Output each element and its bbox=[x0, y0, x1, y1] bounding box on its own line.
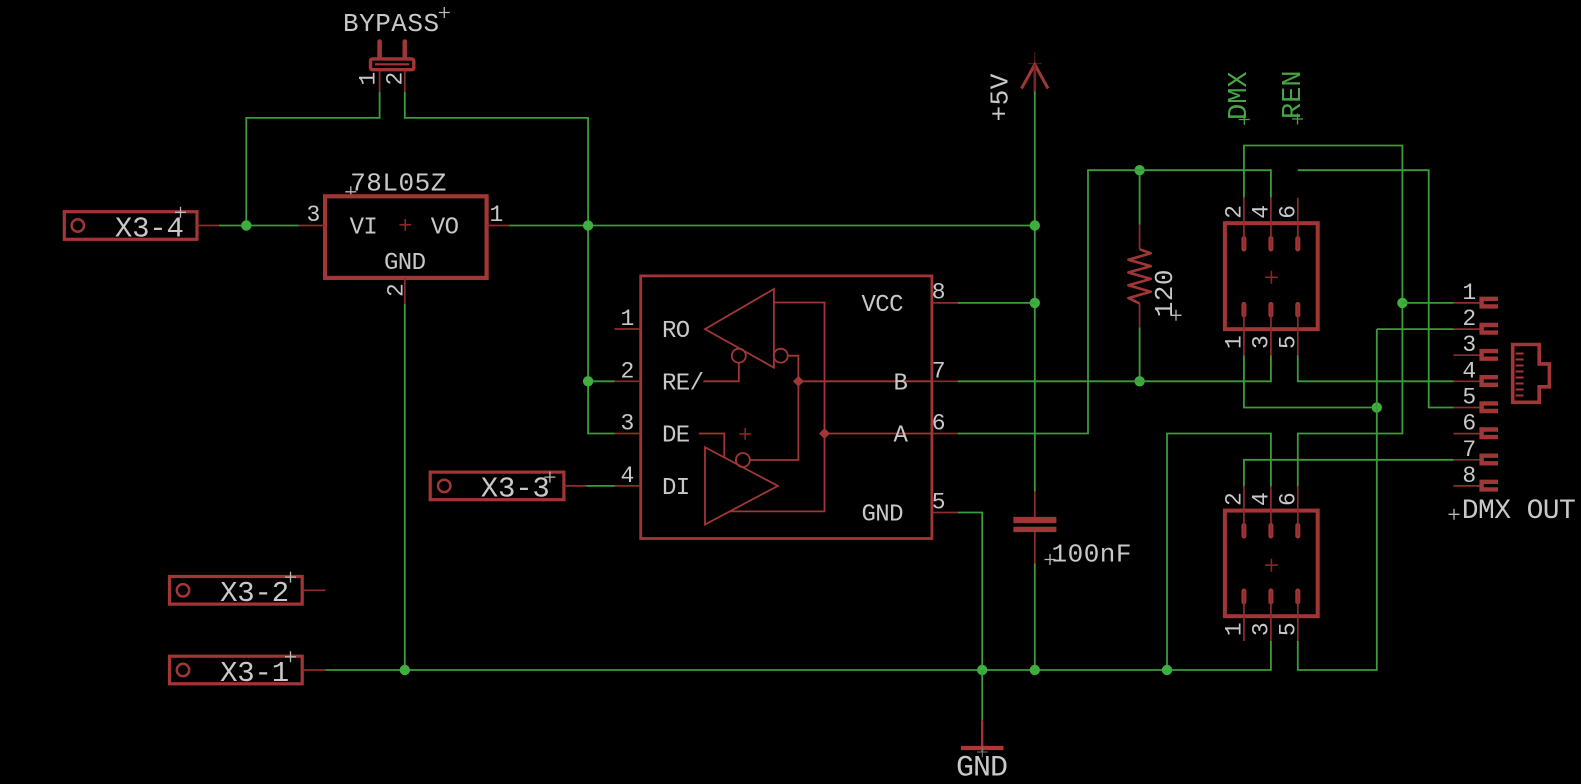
svg-text:3: 3 bbox=[1248, 336, 1274, 349]
svg-text:VI: VI bbox=[350, 215, 378, 242]
78L05 internal origin cross (red) bbox=[400, 219, 412, 231]
78L05 pin 2 stub bbox=[404, 278, 406, 304]
svg-text:5: 5 bbox=[1462, 385, 1475, 411]
DMX OUT pin 8 lead bbox=[1454, 485, 1480, 487]
net label REN (green) bbox=[1279, 70, 1309, 124]
net label DMX (green) bbox=[1225, 71, 1255, 125]
junction resistor bottom at B-line bbox=[1134, 376, 1144, 386]
svg-text:RO: RO bbox=[662, 318, 690, 345]
junction +5V / VO bbox=[1030, 220, 1040, 230]
REN header outer stubs bottom bbox=[1244, 591, 1298, 641]
REN header inner pin marks top bbox=[1244, 526, 1298, 537]
capacitor BYPASS body bbox=[371, 59, 414, 70]
connector X3-4 bbox=[64, 207, 219, 246]
DMX OUT pin 8 hook bbox=[1482, 482, 1498, 490]
IC internal origin cross (red) bbox=[739, 428, 751, 440]
wire DMX header pin1 down to node bbox=[1244, 356, 1377, 408]
svg-text:78L05Z: 78L05Z bbox=[350, 168, 447, 198]
junction GND net at DMX OUT pin1 bbox=[1397, 298, 1407, 308]
wire bypass pin2 to bus to VO/RE/DE vertical bbox=[405, 92, 615, 434]
receiver output line to A-node bbox=[730, 303, 825, 512]
wire REN pin2 to DMX OUT pin7 bbox=[1244, 460, 1454, 487]
receiver output bubble bbox=[732, 349, 746, 363]
DMX OUT pin 3 hook bbox=[1482, 351, 1498, 359]
svg-text:120: 120 bbox=[1150, 269, 1180, 317]
svg-text:+5V: +5V bbox=[986, 73, 1016, 121]
+5V pin cross (thin) bbox=[1028, 52, 1042, 75]
svg-text:DI: DI bbox=[662, 475, 690, 502]
DMX OUT pin 7 hook bbox=[1482, 456, 1498, 464]
svg-text:VO: VO bbox=[431, 215, 459, 242]
wire REN net: DMX header pin6 over and down to DMX OUT pin5 bbox=[1298, 170, 1454, 407]
junction diamond B-node bbox=[793, 376, 804, 387]
junction node at 1377/407 bbox=[1372, 402, 1382, 412]
REN header box bbox=[1225, 511, 1318, 617]
100nF top lead bbox=[1034, 492, 1036, 518]
78L05 pin 3 stub bbox=[299, 225, 326, 227]
svg-text:GND: GND bbox=[384, 250, 426, 277]
wire ground bus (X3-1 to REN pin3) bbox=[325, 641, 1271, 670]
DMX OUT pin 6 lead bbox=[1454, 433, 1480, 435]
X3-3 origin cross bbox=[544, 472, 555, 483]
driver enable bubble bbox=[736, 453, 750, 467]
junction 100nF at bus bbox=[1030, 665, 1040, 675]
DMX OUT pin 4 hook bbox=[1482, 377, 1498, 385]
pin header SV1 (DMX jumper block) bbox=[1221, 198, 1317, 356]
svg-text:7: 7 bbox=[1462, 437, 1475, 463]
junction diamond A-node bbox=[819, 428, 830, 439]
wire B-out: DMX header pin5 to DMX OUT pin4 bbox=[1298, 356, 1454, 382]
100nF bottom plate bbox=[1013, 527, 1056, 532]
svg-text:1: 1 bbox=[1221, 336, 1247, 349]
receiver triangle bbox=[705, 289, 774, 368]
DMX OUT pin 1 lead bbox=[1454, 302, 1480, 304]
X3-3 box bbox=[430, 472, 564, 500]
svg-text:1: 1 bbox=[1462, 280, 1475, 306]
X3-3 pin stub bbox=[564, 485, 586, 487]
wire node down to REN pin5 bbox=[1298, 329, 1377, 670]
transceiver IC 75176 bbox=[615, 276, 958, 539]
pin stub RE/ bbox=[615, 380, 641, 382]
junction X3-4/VI node bbox=[241, 220, 251, 230]
X3-2 pad circle bbox=[177, 584, 189, 596]
RE/ internal line bbox=[704, 363, 739, 382]
supply symbol +5V bbox=[986, 52, 1049, 122]
X3-1 pin stub bbox=[302, 669, 326, 671]
svg-text:6: 6 bbox=[1462, 411, 1475, 437]
wire VCC pin8 to +5V rail bbox=[958, 302, 1035, 304]
svg-text:4: 4 bbox=[1248, 205, 1274, 218]
connector X3-2 bbox=[170, 572, 326, 611]
wire resistor bottom to B-line bbox=[1139, 328, 1141, 382]
svg-text:X3-3: X3-3 bbox=[481, 473, 550, 506]
wire B net: IC pin7 to DMX header pin3 bbox=[958, 356, 1271, 382]
svg-text:4: 4 bbox=[1248, 493, 1274, 506]
svg-text:8: 8 bbox=[932, 280, 945, 306]
DMX OUT pin 1 hook bbox=[1482, 299, 1498, 307]
GND label origin cross bbox=[977, 747, 988, 758]
svg-text:DE: DE bbox=[662, 423, 690, 450]
svg-text:2: 2 bbox=[1221, 493, 1247, 506]
wire X3-3 to DI bbox=[586, 485, 616, 487]
IC box bbox=[641, 276, 932, 539]
DMX header inner pin marks bottom bbox=[1244, 305, 1298, 316]
DMX OUT origin cross bbox=[1449, 509, 1460, 520]
GND pin lead bbox=[981, 720, 983, 752]
DMX header outer stubs bottom bbox=[1244, 305, 1298, 356]
wire GND pin5 down to ground bus bbox=[958, 513, 983, 671]
DMX header box bbox=[1225, 223, 1318, 329]
X3-4 origin cross bbox=[175, 207, 186, 218]
REN label cross bbox=[1292, 114, 1303, 125]
capacitor BYPASS (C bypass) bbox=[343, 7, 450, 92]
capacitor C 100nF bbox=[1013, 492, 1132, 570]
junction RE/DE node at 588 bbox=[583, 376, 593, 386]
svg-text:8: 8 bbox=[1462, 463, 1475, 489]
svg-text:GND: GND bbox=[956, 752, 1007, 784]
svg-text:GND: GND bbox=[862, 502, 904, 529]
resistor top lead bbox=[1139, 225, 1141, 250]
+5V arrow shaft bbox=[1034, 65, 1037, 92]
pin stub B bbox=[932, 380, 958, 382]
wire RE/ stub link bbox=[588, 380, 614, 382]
svg-text:3: 3 bbox=[307, 202, 320, 228]
RJ45 outline bbox=[1513, 345, 1550, 403]
svg-text:6: 6 bbox=[1275, 493, 1301, 506]
svg-text:100nF: 100nF bbox=[1052, 539, 1133, 569]
DMX header outer stubs top bbox=[1244, 198, 1298, 249]
78L05 origin cross bbox=[345, 186, 356, 197]
DMX OUT pin 2 lead bbox=[1454, 328, 1480, 330]
svg-text:1: 1 bbox=[356, 72, 382, 85]
svg-text:DMX: DMX bbox=[1225, 71, 1255, 120]
receiver bubble link to B-node bbox=[788, 356, 799, 382]
DMX OUT pin 5 lead bbox=[1454, 407, 1480, 409]
connector X3-3 bbox=[430, 472, 586, 506]
wire GND net: REN pin6 up, across, up to DMX header pin2 bbox=[1244, 146, 1403, 487]
REN header inner pin marks bottom bbox=[1244, 591, 1298, 602]
ground symbol GND bbox=[956, 670, 1007, 784]
X3-2 origin cross bbox=[285, 572, 296, 583]
GND bar bbox=[961, 746, 1004, 750]
svg-text:RE/: RE/ bbox=[662, 370, 704, 397]
X3-1 origin cross bbox=[285, 651, 296, 662]
svg-text:4: 4 bbox=[621, 463, 634, 489]
78L05 box bbox=[325, 196, 487, 278]
X3-4 pad circle bbox=[72, 219, 84, 231]
X3-2 box bbox=[170, 577, 303, 605]
A internal line bbox=[825, 433, 932, 435]
wire DMX OUT pin1 bbox=[1402, 302, 1453, 304]
pin stub VCC bbox=[932, 302, 958, 304]
RJ45 contact teeth bbox=[1516, 354, 1524, 396]
svg-text:BYPASS: BYPASS bbox=[343, 9, 440, 39]
wire 78L05 VO output to +5V rail bbox=[509, 225, 1035, 227]
pin stub GND bbox=[932, 512, 958, 514]
svg-text:3: 3 bbox=[1462, 332, 1475, 358]
wire bypass pin1 to bus to X3-4/VI bbox=[246, 92, 379, 226]
resistor zigzag body bbox=[1128, 249, 1150, 303]
resistor R 120 bbox=[1128, 170, 1181, 381]
svg-text:X3-4: X3-4 bbox=[115, 212, 184, 245]
wire bus down to GND symbol bbox=[981, 670, 983, 720]
DMX label cross bbox=[1239, 114, 1250, 125]
100nF top plate bbox=[1013, 517, 1056, 523]
capacitor BYPASS pin posts bbox=[380, 42, 405, 59]
X3-3 pad circle bbox=[438, 480, 450, 492]
svg-text:5: 5 bbox=[1275, 336, 1301, 349]
X3-1 pad circle bbox=[177, 664, 189, 676]
svg-text:B: B bbox=[894, 370, 908, 397]
driver bubble link to B-node bbox=[750, 381, 799, 460]
DMX OUT pin 3 lead bbox=[1454, 354, 1480, 356]
junction +5V / VCC bbox=[1030, 298, 1040, 308]
svg-text:5: 5 bbox=[1275, 623, 1301, 636]
DMX OUT pin 7 lead bbox=[1454, 459, 1480, 461]
resistor bottom lead bbox=[1139, 304, 1141, 328]
svg-text:1: 1 bbox=[1221, 623, 1247, 636]
DMX OUT pin 6 hook bbox=[1482, 430, 1498, 438]
svg-text:2: 2 bbox=[621, 358, 634, 384]
RJ45 jack symbol bbox=[1513, 345, 1550, 403]
X3-4 box bbox=[64, 212, 197, 240]
DMX OUT pin 5 hook bbox=[1482, 403, 1498, 411]
DMX OUT pin 2 hook bbox=[1482, 325, 1498, 333]
connector X3-1 bbox=[170, 651, 326, 690]
driver triangle bbox=[705, 447, 778, 524]
origin cross BYPASS bbox=[439, 7, 450, 18]
wire A net: IC pin6 up and over to DMX header pin4 bbox=[958, 170, 1271, 433]
junction VO node at 588 bbox=[583, 220, 593, 230]
wire 78L05 GND pin2 down to ground bus bbox=[404, 304, 406, 670]
svg-text:1: 1 bbox=[490, 202, 503, 228]
100nF bottom lead bbox=[1034, 532, 1036, 563]
+5V arrow bbox=[1022, 65, 1049, 89]
DMX OUT pin 4 lead bbox=[1454, 380, 1480, 382]
junction GND branch at bus bbox=[1162, 665, 1172, 675]
wire X3-4 to 78L05 VI bbox=[219, 225, 299, 227]
svg-text:2: 2 bbox=[1462, 306, 1475, 332]
voltage regulator U 78L05Z bbox=[299, 168, 510, 303]
capacitor BYPASS inner plate line bbox=[375, 63, 409, 65]
svg-text:5: 5 bbox=[932, 489, 945, 515]
wire node to DMX OUT pin2 bbox=[1377, 328, 1454, 330]
svg-text:REN: REN bbox=[1279, 70, 1309, 119]
wire +5V rail down to 100nF bbox=[1034, 92, 1036, 492]
wire A-line to resistor top bbox=[1139, 170, 1141, 225]
DMX header center cross bbox=[1265, 271, 1278, 284]
junction IC GND at bus bbox=[977, 665, 987, 675]
svg-text:2: 2 bbox=[1221, 205, 1247, 218]
DE internal line bbox=[699, 434, 725, 458]
B internal line bbox=[798, 380, 932, 382]
svg-text:4: 4 bbox=[1462, 358, 1475, 384]
junction 78L05 GND at bus bbox=[400, 665, 410, 675]
svg-text:A: A bbox=[894, 423, 909, 450]
pin stub A bbox=[932, 433, 958, 435]
X3-2 pin stub (unconnected) bbox=[302, 589, 326, 591]
120 origin cross bbox=[1171, 310, 1182, 321]
svg-text:3: 3 bbox=[621, 411, 634, 437]
X3-4 pin stub bbox=[197, 225, 219, 227]
receiver enable bubble bbox=[774, 349, 788, 363]
78L05 pin 1 stub bbox=[487, 225, 510, 227]
100nF origin cross bbox=[1045, 554, 1056, 565]
svg-text:6: 6 bbox=[1275, 205, 1301, 218]
svg-text:3: 3 bbox=[1248, 623, 1274, 636]
svg-text:1: 1 bbox=[621, 306, 634, 332]
pin stub DE bbox=[615, 433, 641, 435]
REN header outer stubs top bbox=[1244, 486, 1298, 536]
wire GND branch up from bus to REN pin4 bbox=[1167, 434, 1271, 671]
svg-text:VCC: VCC bbox=[862, 292, 904, 319]
capacitor BYPASS pin leads bbox=[380, 70, 405, 92]
junction resistor top at A-line bbox=[1134, 165, 1144, 175]
pin stub RO bbox=[615, 328, 641, 330]
DMX header inner pin marks top bbox=[1244, 239, 1298, 250]
svg-text:6: 6 bbox=[932, 411, 945, 437]
pin header X2 DMX OUT bbox=[1449, 280, 1576, 527]
svg-text:DMX OUT: DMX OUT bbox=[1462, 496, 1575, 527]
svg-text:X3-2: X3-2 bbox=[220, 577, 289, 610]
REN header center cross bbox=[1265, 559, 1278, 572]
X3-1 box bbox=[170, 656, 303, 684]
pin stub DI bbox=[615, 485, 641, 487]
svg-text:7: 7 bbox=[932, 358, 945, 384]
pin header SV2 (REN jumper block) bbox=[1221, 486, 1317, 641]
wire 100nF to ground bus bbox=[1034, 564, 1036, 671]
svg-text:X3-1: X3-1 bbox=[220, 657, 289, 690]
